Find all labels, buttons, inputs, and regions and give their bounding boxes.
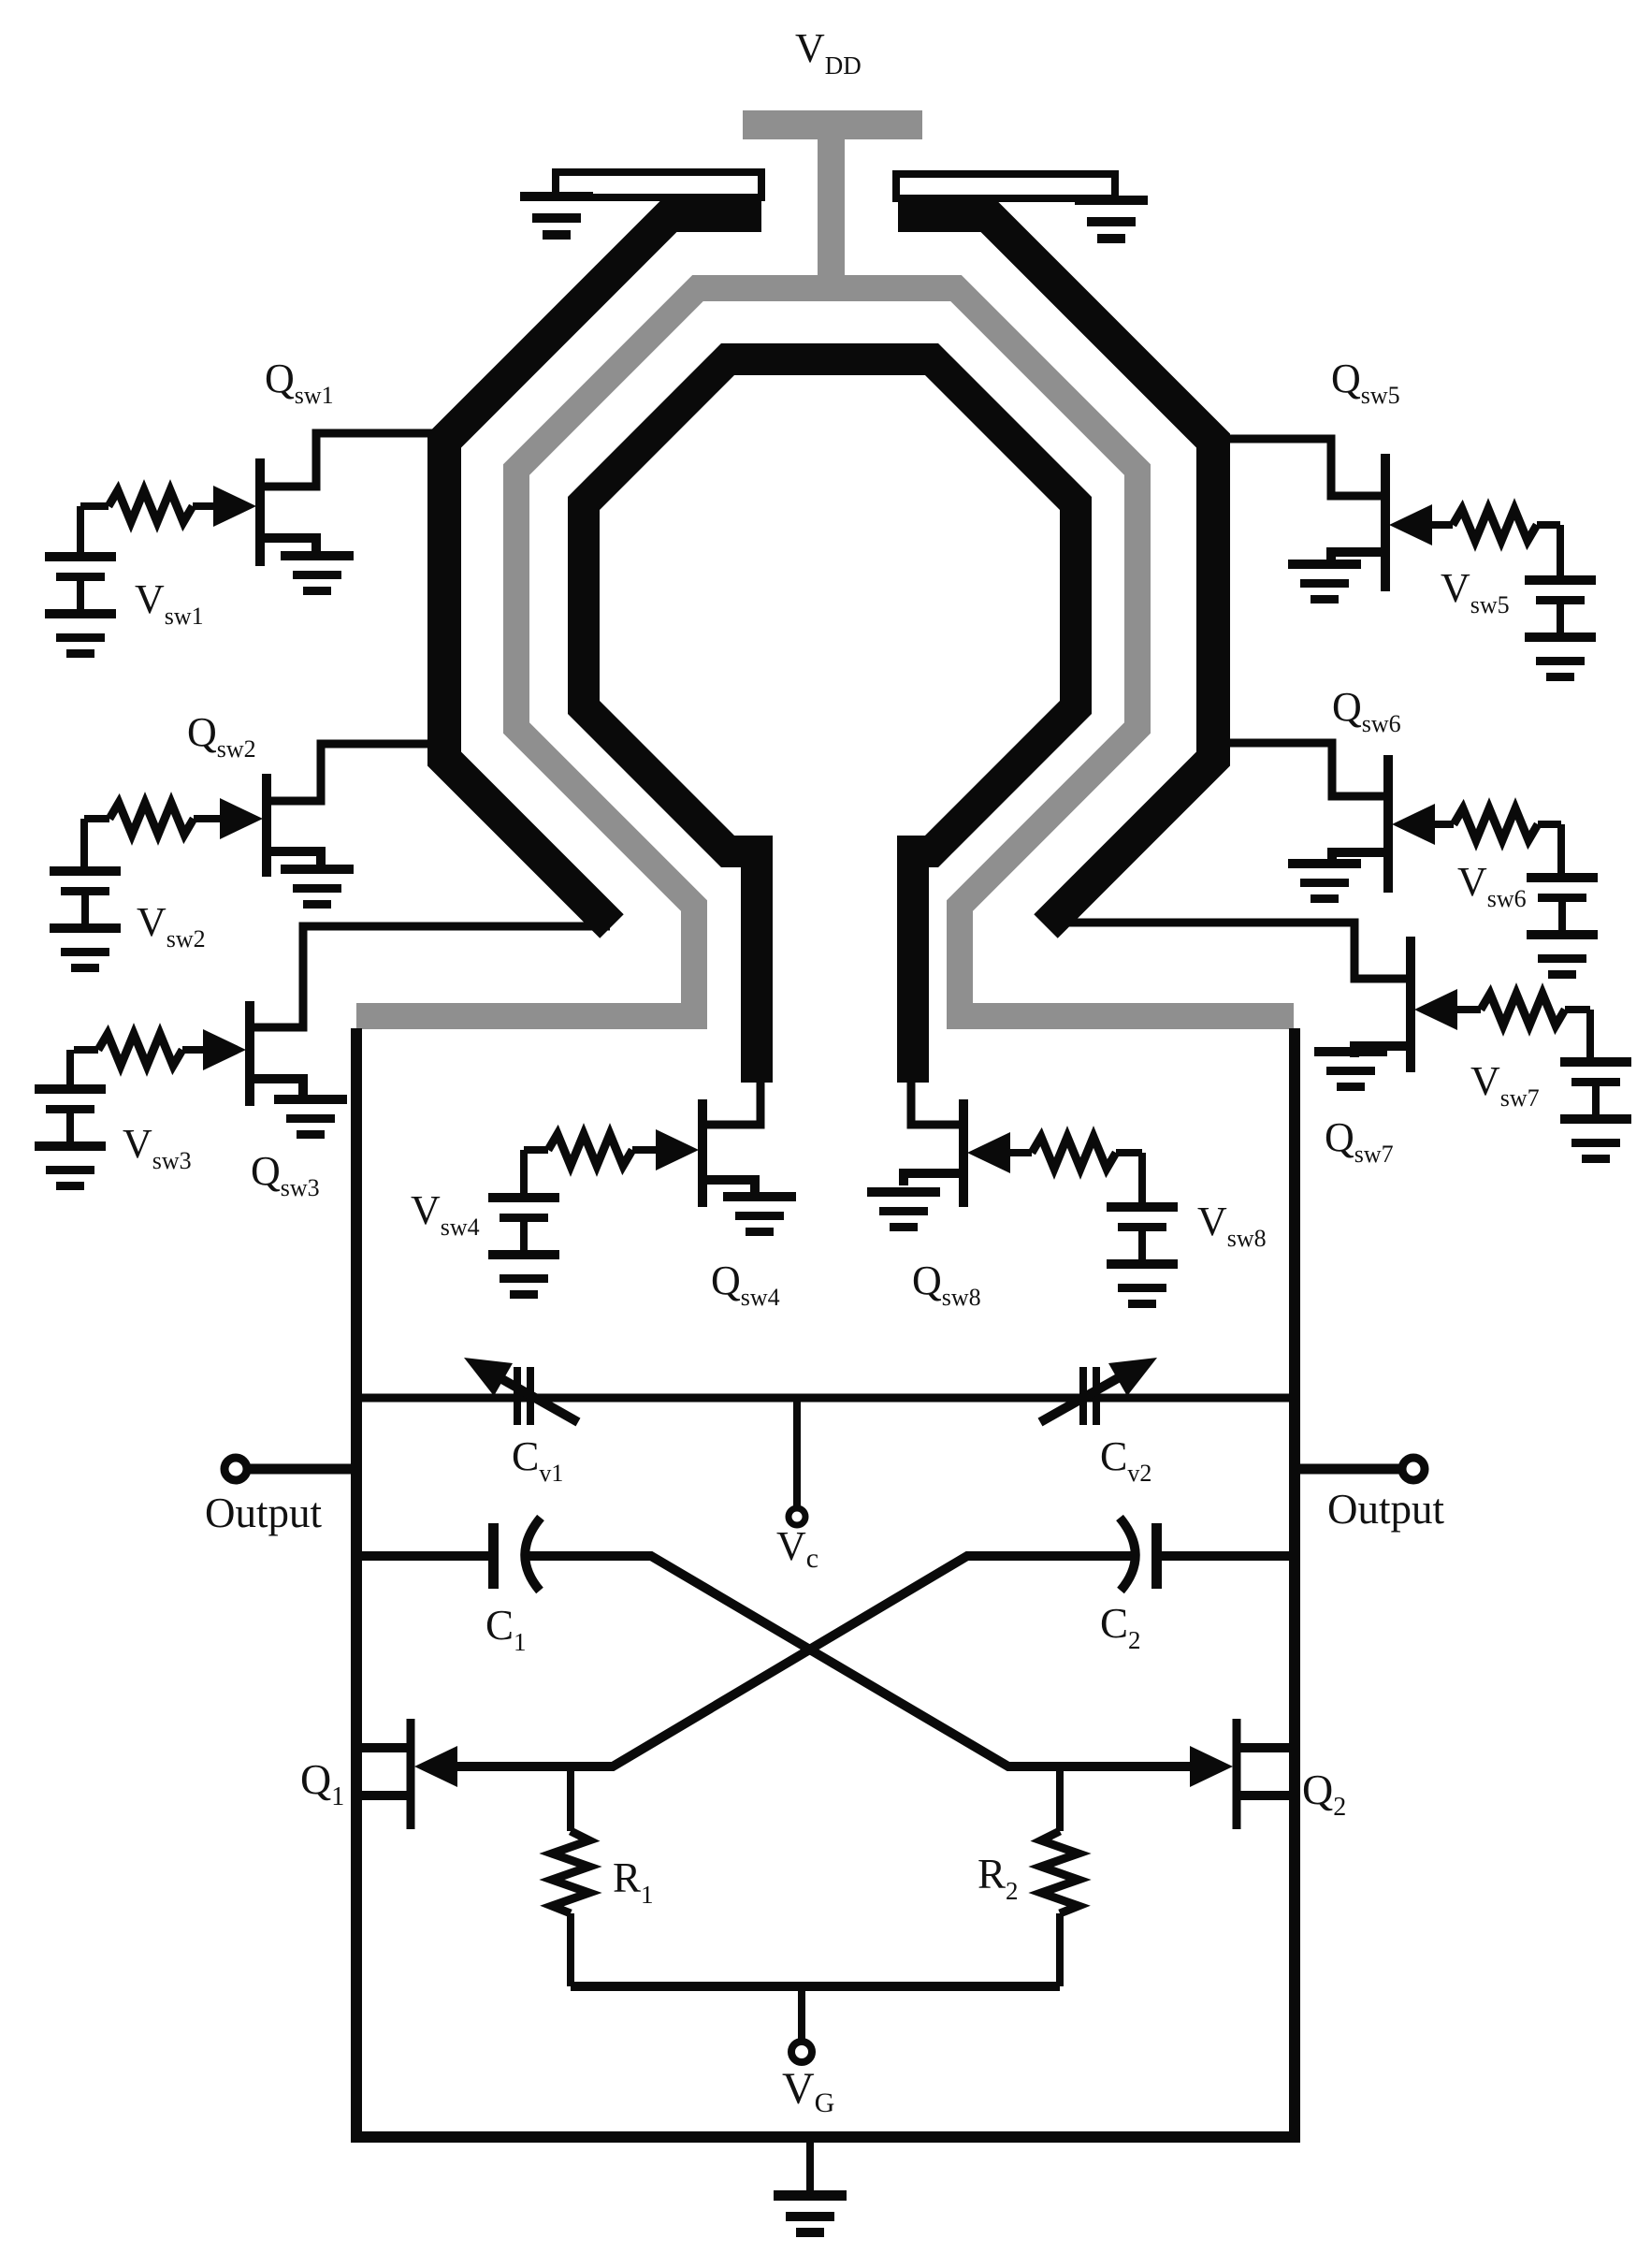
gate arrow Q1	[414, 1746, 457, 1787]
capacitor source Vsw7	[1586, 1010, 1594, 1059]
capacitor source Vsw4	[520, 1150, 528, 1195]
cross wire C1 to Q2 gate	[527, 1556, 1194, 1766]
inductor inner turn (black) with center-tap stubs	[584, 359, 1076, 1083]
top-left tap plate	[556, 172, 761, 197]
varactor bus wire	[356, 1394, 1295, 1403]
right tank rail	[1289, 1028, 1300, 2137]
ground (top-left tap)	[520, 192, 593, 240]
transistor Qsw4	[656, 1081, 760, 1207]
resistor R2	[1041, 1771, 1079, 1986]
capacitor source Vsw8	[1138, 1153, 1146, 1204]
inductor outer turn (black, left half)	[444, 215, 761, 926]
ground (Qsw6 source)	[1288, 859, 1361, 903]
capacitor source Vsw6	[1557, 824, 1565, 875]
transistor Q1	[356, 1719, 411, 1829]
transistor Qsw3	[203, 926, 610, 1106]
svg-text:Output: Output	[1327, 1486, 1445, 1533]
varactor Cv1	[464, 1358, 578, 1425]
transistor Q2	[1237, 1719, 1295, 1829]
transistor Qsw6	[1209, 743, 1435, 893]
capacitor source Vsw1	[77, 506, 84, 554]
transistor Qsw8	[904, 1081, 1010, 1207]
terminal Output (left)	[224, 1458, 356, 1480]
capacitor source Vsw3	[66, 1050, 74, 1086]
ground (Qsw2 source)	[281, 865, 354, 909]
left tank rail	[351, 1028, 362, 2137]
inductor middle turn (gray ring) with bottom bus arms	[356, 288, 1294, 1016]
ground (Qsw8 source)	[867, 1187, 940, 1231]
terminal Vc	[789, 1398, 805, 1525]
ground (Qsw4 source)	[723, 1192, 796, 1236]
resistor R1	[552, 1771, 589, 1986]
resistor Qsw2 gate	[84, 803, 222, 835]
VDD feed (gray T)	[743, 110, 922, 295]
capacitor C2	[1120, 1518, 1295, 1591]
resistor Qsw8 gate	[1010, 1137, 1142, 1169]
top-right tap plate	[896, 174, 1115, 198]
capacitor C1	[356, 1518, 541, 1591]
resistor Qsw1 gate	[80, 490, 215, 522]
ground (bottom center)	[774, 2137, 847, 2237]
terminal VG	[791, 1986, 812, 2062]
resistor Qsw4 gate	[524, 1134, 656, 1166]
ground (Qsw7 source)	[1314, 1047, 1387, 1091]
terminal Output (right)	[1295, 1458, 1425, 1480]
transistor Qsw2	[220, 744, 449, 877]
resistor Qsw6 gate	[1435, 808, 1561, 840]
ground (Qsw3 source)	[274, 1095, 347, 1139]
ground (top-right tap)	[1075, 196, 1148, 243]
gate arrow Q2	[1190, 1746, 1233, 1787]
svg-text:Output: Output	[205, 1490, 323, 1536]
resistor Qsw5 gate	[1432, 509, 1560, 541]
gate arrow shaft Qsw1	[210, 502, 224, 510]
resistor Qsw3 gate	[74, 1034, 207, 1066]
transistor Qsw1	[213, 433, 449, 566]
bottom source rail	[351, 2131, 1300, 2143]
transistor Qsw7	[1048, 923, 1457, 1072]
ground (Qsw1 source)	[281, 551, 354, 595]
transistor Qsw5	[1209, 439, 1432, 591]
ground (Qsw5 source)	[1288, 560, 1361, 603]
capacitor source Vsw2	[80, 819, 88, 866]
cross wire C2 to Q1 gate	[454, 1556, 1134, 1766]
capacitor source Vsw5	[1557, 525, 1564, 577]
varactor Cv2	[1040, 1358, 1157, 1425]
gate bias bus	[571, 1982, 1060, 1991]
inductor outer turn (black, right half)	[898, 215, 1213, 926]
resistor Qsw7 gate	[1457, 994, 1590, 1025]
